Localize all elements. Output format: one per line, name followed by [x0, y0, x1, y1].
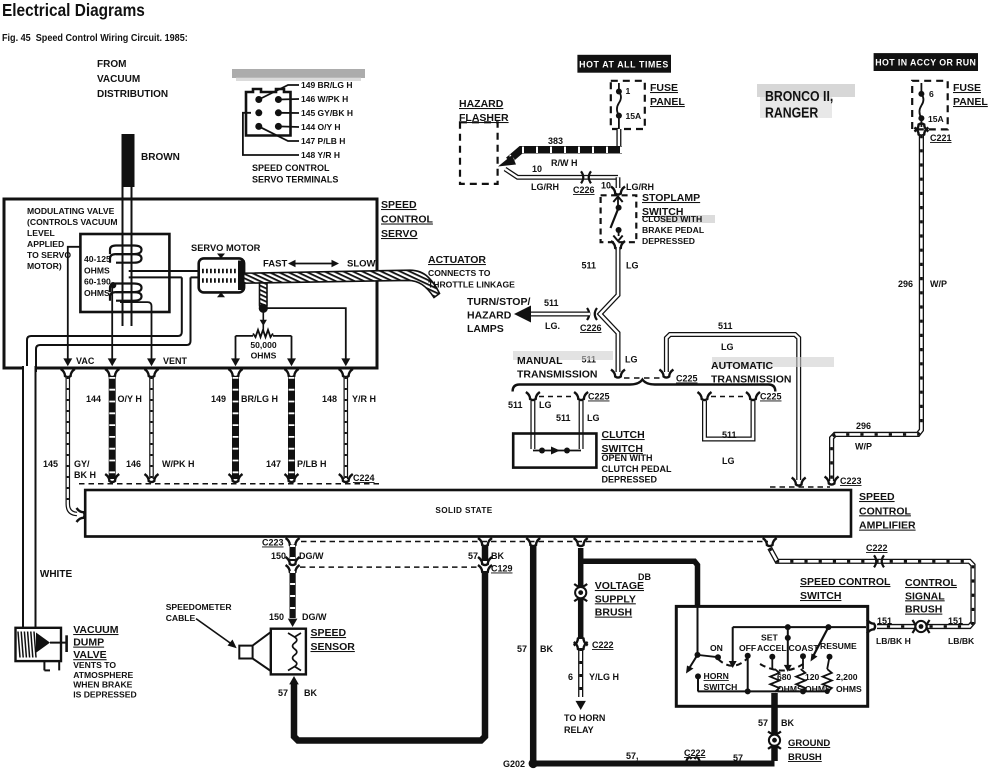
OFF drop — [747, 656, 749, 692]
auto 511 loop — [705, 401, 754, 439]
svg-text:BK: BK — [491, 551, 504, 561]
svg-text:W/P: W/P — [855, 442, 872, 452]
dashed line C223 bottom — [301, 541, 768, 543]
speedometer cable arrow — [196, 619, 233, 645]
svg-text:WHEN BRAKE: WHEN BRAKE — [73, 680, 132, 690]
svg-text:57,: 57, — [626, 751, 639, 761]
vacuum dump valve vent stub — [43, 661, 45, 670]
wiper travel arc 1 — [718, 658, 748, 666]
stoplamp contact dot — [616, 227, 622, 233]
svg-text:C129: C129 — [491, 564, 513, 574]
wire from rod to vent row — [268, 308, 346, 362]
wire 146 W/PK H — [149, 377, 154, 479]
right fuse terminal dot 6 — [918, 91, 924, 97]
cap DB wire — [574, 538, 588, 546]
amplifier left notch — [77, 508, 85, 522]
vacuum tube to servo motor — [129, 270, 200, 272]
svg-text:VENTS TO: VENTS TO — [73, 660, 116, 670]
svg-text:C223: C223 — [840, 476, 862, 486]
scan smudge manual — [513, 351, 613, 360]
voltage supply brush circle — [574, 584, 587, 587]
svg-text:144: 144 — [86, 394, 101, 404]
cap 511 at amplifier — [792, 478, 806, 486]
vacuum dump valve box — [16, 628, 62, 661]
resistor leads — [236, 335, 254, 337]
stoplamp switch box (dashed) — [601, 195, 637, 242]
svg-text:RANGER: RANGER — [765, 104, 818, 120]
svg-text:TO SERVO: TO SERVO — [27, 250, 71, 260]
fuse 15A terminal dot — [616, 113, 622, 119]
svg-text:OHMS: OHMS — [84, 265, 110, 275]
svg-text:BRUSH: BRUSH — [905, 604, 942, 616]
svg-text:HOT AT ALL TIMES: HOT AT ALL TIMES — [579, 59, 669, 69]
svg-text:SPEED CONTROL: SPEED CONTROL — [800, 576, 891, 588]
wire end cap x=345.8 — [339, 474, 353, 482]
wiper to ON — [698, 655, 719, 657]
lead to 148 — [243, 113, 299, 155]
contact dot SET/ACCEL — [769, 654, 775, 660]
svg-text:2,200: 2,200 — [836, 672, 858, 682]
ground bus wire — [533, 761, 774, 767]
svg-text:W/P: W/P — [930, 279, 947, 289]
svg-text:TO HORN: TO HORN — [564, 713, 605, 723]
pin 4 — [275, 109, 282, 116]
svg-text:LG: LG — [587, 413, 600, 423]
svg-text:SWITCH: SWITCH — [704, 682, 738, 692]
manual C225 wire cap — [659, 370, 673, 378]
svg-text:VOLTAGE: VOLTAGE — [595, 580, 644, 592]
servo box exit arrow x=112.2 — [108, 358, 117, 366]
svg-text:VAC: VAC — [76, 356, 95, 366]
svg-text:DG/W: DG/W — [299, 551, 324, 561]
horn switch dot — [695, 673, 701, 679]
switch feed wire inside — [697, 607, 699, 655]
svg-text:FAST: FAST — [263, 259, 287, 270]
svg-text:57: 57 — [758, 718, 768, 728]
servo motor winding bottom — [202, 278, 236, 283]
svg-text:SET: SET — [761, 633, 778, 643]
svg-text:Y/LG H: Y/LG H — [589, 672, 619, 682]
svg-text:511: 511 — [556, 413, 571, 423]
svg-text:GY/: GY/ — [74, 459, 90, 469]
connector body speed control servo terminals — [246, 89, 291, 136]
C129 caps on 150 — [286, 557, 300, 565]
svg-text:HORN: HORN — [704, 671, 729, 681]
svg-text:G202: G202 — [503, 759, 525, 769]
wire 149 BR/LG H — [232, 377, 239, 479]
wire 383 R/W H — [509, 150, 623, 161]
svg-text:MODULATING VALVE: MODULATING VALVE — [27, 206, 115, 216]
servo motor box — [199, 258, 244, 292]
svg-text:RELAY: RELAY — [564, 725, 594, 735]
svg-text:AMPLIFIER: AMPLIFIER — [859, 520, 916, 532]
contact dot OFF — [745, 653, 751, 659]
speed sensor coil — [288, 633, 301, 671]
svg-text:1: 1 — [626, 86, 631, 96]
svg-text:LG: LG — [625, 355, 638, 365]
fast-slow double arrow — [290, 263, 337, 265]
svg-text:Fig. 45 Speed Control Wiring: Fig. 45 Speed Control Wiring Circuit. 19… — [2, 33, 188, 45]
connector cap below box x=112.2 — [105, 369, 119, 377]
wire 296 W/P — [832, 135, 922, 481]
dashed line C129 — [300, 566, 480, 568]
wire end cap x=112.2 — [105, 474, 119, 482]
dashed connector line right of caps — [770, 486, 830, 488]
white hose walls — [24, 366, 35, 628]
svg-text:120: 120 — [805, 672, 820, 682]
svg-text:(CONTROLS VACUUM: (CONTROLS VACUUM — [27, 217, 118, 227]
svg-text:CONNECTS TO: CONNECTS TO — [428, 268, 491, 278]
svg-text:151: 151 — [948, 616, 963, 626]
svg-text:BROWN: BROWN — [141, 152, 180, 163]
dashed connector line C224 — [79, 483, 379, 485]
wiper travel arc 2 — [760, 662, 806, 671]
wire 151 LB/BK (C222 to brush) — [770, 548, 973, 627]
wire 144 O/Y H — [109, 377, 116, 479]
wire 144 from wiper dot — [111, 288, 113, 362]
svg-text:OHMS: OHMS — [84, 288, 110, 298]
lead to 145 — [278, 112, 299, 114]
svg-text:SPEED CONTROL: SPEED CONTROL — [252, 163, 330, 173]
svg-text:DG/W: DG/W — [302, 612, 327, 622]
svg-text:C222: C222 — [684, 748, 706, 758]
svg-text:SPEED: SPEED — [381, 199, 417, 211]
clutch contacts — [533, 450, 581, 452]
HOT IN ACCY OR RUN box — [874, 53, 978, 71]
svg-text:DEPRESSED: DEPRESSED — [642, 236, 695, 246]
wire 10 LG/RH — [505, 169, 618, 177]
stoplamp wire end cap — [611, 370, 625, 378]
switch top rail — [733, 626, 866, 628]
vacuum dump valve spring — [18, 632, 20, 658]
svg-text:HAZARD: HAZARD — [459, 98, 504, 110]
wiper arm arrow — [689, 655, 698, 669]
svg-text:147: 147 — [266, 459, 281, 469]
svg-text:SERVO MOTOR: SERVO MOTOR — [191, 243, 261, 253]
svg-text:MOTOR): MOTOR) — [27, 261, 62, 271]
voltage brush wire vertical — [578, 548, 584, 639]
DB wire — [578, 561, 698, 607]
wire 148 Y/R H — [343, 377, 348, 479]
svg-text:BRUSH: BRUSH — [788, 752, 822, 763]
RESUME drop — [827, 657, 829, 669]
svg-text:C224: C224 — [353, 473, 375, 483]
control signal brush circle — [912, 620, 915, 633]
svg-text:BRAKE PEDAL: BRAKE PEDAL — [642, 225, 704, 235]
modulating valve coil — [110, 246, 142, 255]
servo box exit arrow x=291.5 — [287, 358, 296, 366]
auto C225 caps — [698, 392, 712, 400]
svg-text:DISTRIBUTION: DISTRIBUTION — [97, 89, 168, 100]
svg-text:6: 6 — [929, 89, 934, 99]
arrow 150 into sensor — [288, 619, 298, 627]
svg-text:LB/BK H: LB/BK H — [876, 636, 911, 646]
svg-text:SIGNAL: SIGNAL — [905, 590, 945, 602]
wire sensor return U — [294, 571, 485, 741]
svg-text:511: 511 — [718, 321, 733, 331]
auto C225 dashed — [711, 396, 747, 398]
wire to turn/stop/hazard — [531, 312, 590, 317]
svg-text:VENT: VENT — [163, 356, 188, 366]
svg-text:145: 145 — [43, 459, 58, 469]
svg-text:SLOW: SLOW — [347, 259, 376, 270]
svg-text:LG/RH: LG/RH — [626, 182, 654, 192]
svg-text:BK H: BK H — [74, 470, 96, 480]
svg-text:10: 10 — [532, 164, 542, 174]
C222 caps on brush wire — [574, 637, 588, 645]
svg-text:AUTOMATIC: AUTOMATIC — [711, 360, 773, 372]
svg-text:148 Y/R H: 148 Y/R H — [301, 150, 340, 160]
svg-text:BK: BK — [540, 644, 553, 654]
solid state box bottom heavy — [85, 535, 851, 537]
wiper lead with arrow — [262, 312, 264, 331]
svg-text:C223: C223 — [262, 538, 284, 548]
scan smudge near closed-with — [660, 215, 715, 223]
actuator rod — [244, 270, 440, 297]
arrow to horn relay — [576, 701, 586, 710]
rail junction dots — [745, 688, 751, 694]
fuse 1 terminal dot — [616, 89, 622, 95]
servo box exit arrow x=235.5 — [231, 358, 240, 366]
C129 caps on 57 — [478, 557, 492, 565]
actuator plunger bar — [260, 283, 268, 309]
svg-text:146 W/PK H: 146 W/PK H — [301, 94, 348, 104]
cap 57 top — [478, 538, 492, 546]
wire 57 BK switch to ground — [771, 693, 778, 761]
svg-text:FUSE: FUSE — [650, 82, 678, 94]
resistor 2200 ohms — [823, 669, 832, 692]
wire 511 from stoplamp — [600, 247, 618, 372]
connector C222 on ground bus — [686, 757, 692, 762]
connector cap below box x=291.5 — [285, 369, 299, 377]
COAST drop — [802, 656, 804, 669]
svg-text:STOPLAMP: STOPLAMP — [642, 192, 700, 204]
dashed line manual C225 — [624, 377, 663, 379]
wire end cap x=151.5 — [145, 474, 159, 482]
svg-text:COAST: COAST — [789, 643, 820, 653]
svg-text:C225: C225 — [588, 392, 610, 402]
svg-text:C222: C222 — [592, 640, 614, 650]
gray scan band — [232, 69, 365, 78]
fuse element — [617, 83, 621, 129]
right fuse element — [919, 83, 923, 127]
wire below fuse — [616, 129, 621, 147]
svg-text:LEVEL: LEVEL — [27, 228, 55, 238]
svg-text:BK: BK — [781, 718, 794, 728]
wire end cap x=291.5 — [285, 474, 299, 482]
svg-text:WHITE: WHITE — [40, 569, 73, 580]
svg-text:VACUUM: VACUUM — [73, 624, 119, 636]
svg-text:VACUUM: VACUUM — [97, 74, 140, 85]
svg-text:511: 511 — [544, 298, 559, 308]
svg-text:SPEED: SPEED — [859, 491, 895, 503]
lead to 149 — [259, 85, 299, 100]
wire 511 LG to automatic — [666, 335, 798, 481]
connector C226 turn/stop — [587, 308, 589, 320]
svg-text:146: 146 — [126, 459, 141, 469]
svg-text:57: 57 — [733, 753, 743, 763]
svg-text:150: 150 — [271, 551, 286, 561]
svg-text:PANEL: PANEL — [953, 96, 988, 108]
wire 147 P/LB H — [288, 377, 295, 479]
contact dot ON — [715, 654, 721, 660]
ground brush circle — [768, 732, 781, 735]
servo box exit arrow x=67.8 — [63, 358, 72, 366]
svg-text:C225: C225 — [676, 374, 698, 384]
svg-text:ACCEL: ACCEL — [757, 643, 787, 653]
svg-text:511: 511 — [581, 261, 596, 271]
svg-text:CONTROL: CONTROL — [859, 505, 911, 517]
connector cap below box x=67.8 — [61, 369, 75, 377]
connector cap below box x=235.5 — [229, 369, 243, 377]
cap C222 wire — [763, 538, 777, 546]
svg-text:R/W H: R/W H — [551, 158, 578, 168]
svg-text:OFF: OFF — [739, 643, 756, 653]
svg-text:HOT IN ACCY OR RUN: HOT IN ACCY OR RUN — [875, 58, 976, 68]
svg-text:145 GY/BK H: 145 GY/BK H — [301, 108, 353, 118]
svg-text:CONTROL: CONTROL — [905, 577, 957, 589]
svg-text:Electrical Diagrams: Electrical Diagrams — [2, 1, 145, 20]
svg-text:SPEED: SPEED — [311, 627, 347, 639]
svg-text:296: 296 — [856, 421, 871, 431]
svg-text:151: 151 — [877, 616, 892, 626]
resistor 50000 ohms — [253, 330, 273, 337]
stoplamp arrow in — [613, 197, 622, 203]
svg-text:149 BR/LG H: 149 BR/LG H — [301, 80, 353, 90]
svg-text:383: 383 — [548, 136, 563, 146]
svg-text:CLOSED WITH: CLOSED WITH — [642, 214, 702, 224]
svg-text:57: 57 — [468, 551, 478, 561]
clutch wire right — [579, 401, 584, 449]
svg-text:P/LB H: P/LB H — [297, 459, 327, 469]
svg-text:PANEL: PANEL — [650, 96, 685, 108]
servo motor winding top — [202, 269, 236, 274]
svg-text:SENSOR: SENSOR — [311, 641, 356, 653]
scan smudge automatic — [712, 357, 834, 367]
servo motor shaft bottom — [217, 292, 225, 297]
clutch C225 caps — [526, 392, 540, 400]
svg-text:LG: LG — [722, 456, 735, 466]
arrow 57 into sensor — [289, 676, 299, 684]
svg-text:SERVO TERMINALS: SERVO TERMINALS — [252, 175, 338, 185]
svg-text:10: 10 — [601, 181, 611, 191]
servo motor right cap — [238, 261, 245, 291]
vacuum dump valve stem — [50, 642, 67, 644]
speed control switch box — [676, 606, 867, 706]
svg-text:SUPPLY: SUPPLY — [595, 593, 636, 605]
vacuum dump valve poppet — [36, 633, 50, 653]
svg-text:C226: C226 — [580, 323, 602, 333]
wire 150 DG/W upper — [290, 545, 296, 561]
arrow to turn/stop lamps — [514, 306, 531, 323]
svg-text:OHMS: OHMS — [777, 684, 803, 694]
svg-text:TURN/STOP/: TURN/STOP/ — [467, 296, 530, 308]
wire into stoplamp switch — [616, 177, 621, 188]
connector cap below box x=345.8 — [339, 369, 353, 377]
svg-text:RESUME: RESUME — [820, 641, 857, 651]
pin 2 — [275, 96, 282, 103]
contact dot RESUME — [827, 654, 833, 660]
svg-text:FROM: FROM — [97, 59, 126, 70]
svg-text:Y/R H: Y/R H — [352, 394, 376, 404]
svg-text:GROUND: GROUND — [788, 738, 830, 749]
stoplamp blade — [611, 208, 619, 228]
rail dot 1 — [785, 624, 791, 630]
svg-text:MANUAL: MANUAL — [517, 355, 563, 367]
hazard flasher box (dashed) — [460, 122, 498, 184]
resistor 120 ohms — [796, 669, 805, 692]
svg-text:CLUTCH: CLUTCH — [602, 429, 645, 441]
svg-text:DEPRESSED: DEPRESSED — [602, 475, 658, 485]
svg-text:60-190: 60-190 — [84, 277, 111, 287]
svg-text:CLUTCH PEDAL: CLUTCH PEDAL — [602, 464, 672, 474]
svg-text:O/Y H: O/Y H — [118, 394, 142, 404]
alternatives brace — [513, 380, 776, 392]
wire 57 BK to C129 — [482, 545, 489, 561]
svg-text:C222: C222 — [866, 543, 888, 553]
svg-text:50,000: 50,000 — [250, 340, 277, 350]
rail drop left arrow — [732, 627, 734, 662]
wire end cap x=235.5 — [229, 474, 243, 482]
wire 145 GY/BK H — [68, 377, 77, 514]
right fuse terminal dot 15A — [918, 115, 924, 121]
connector C222 symbol — [874, 555, 876, 567]
svg-text:LG.: LG. — [545, 321, 560, 331]
svg-text:144 O/Y H: 144 O/Y H — [301, 122, 341, 132]
switch bottom rail — [698, 690, 829, 692]
svg-text:LB/BK: LB/BK — [948, 636, 975, 646]
svg-text:FUSE: FUSE — [953, 82, 981, 94]
wire end cap at switch — [867, 620, 875, 634]
pin 1 — [255, 96, 262, 103]
svg-text:THROTTLE LINKAGE: THROTTLE LINKAGE — [428, 280, 515, 290]
wire 150 DG/W lower — [290, 571, 296, 618]
modulating valve box — [80, 234, 169, 312]
svg-text:ATMOSPHERE: ATMOSPHERE — [73, 670, 133, 680]
svg-text:15A: 15A — [626, 111, 642, 121]
svg-text:LG: LG — [626, 261, 639, 271]
clutch wire left — [530, 401, 535, 449]
vacuum tube elbow to hose — [27, 277, 182, 372]
svg-text:148: 148 — [322, 394, 337, 404]
G202 dot — [529, 759, 538, 768]
svg-text:OHMS: OHMS — [836, 684, 862, 694]
connector C226 on wire 10 — [581, 171, 583, 183]
svg-text:SPEEDOMETER: SPEEDOMETER — [166, 602, 233, 612]
wire VAC from modulating valve — [68, 247, 81, 362]
cap 150 top — [286, 538, 300, 546]
svg-text:57: 57 — [278, 688, 288, 698]
fuse panel box (dashed) — [611, 81, 645, 129]
wire 6 Y/LG H — [578, 648, 583, 697]
svg-text:OPEN WITH: OPEN WITH — [602, 453, 653, 463]
svg-text:OHMS: OHMS — [251, 351, 277, 361]
svg-text:40-125: 40-125 — [84, 254, 111, 264]
lead to 144 — [278, 125, 299, 128]
lead to 146 — [278, 98, 299, 101]
pin 3 — [255, 109, 262, 116]
svg-text:HAZARD: HAZARD — [467, 310, 512, 322]
rail drop mid — [787, 627, 789, 665]
svg-text:C225: C225 — [760, 392, 782, 402]
stoplamp connector cap — [611, 187, 625, 195]
svg-text:BK: BK — [304, 688, 317, 698]
svg-text:APPLIED: APPLIED — [27, 239, 64, 249]
servo motor shaft top — [217, 254, 225, 259]
solid state box — [85, 490, 851, 537]
svg-text:CONTROL: CONTROL — [381, 214, 433, 226]
svg-text:296: 296 — [898, 279, 913, 289]
